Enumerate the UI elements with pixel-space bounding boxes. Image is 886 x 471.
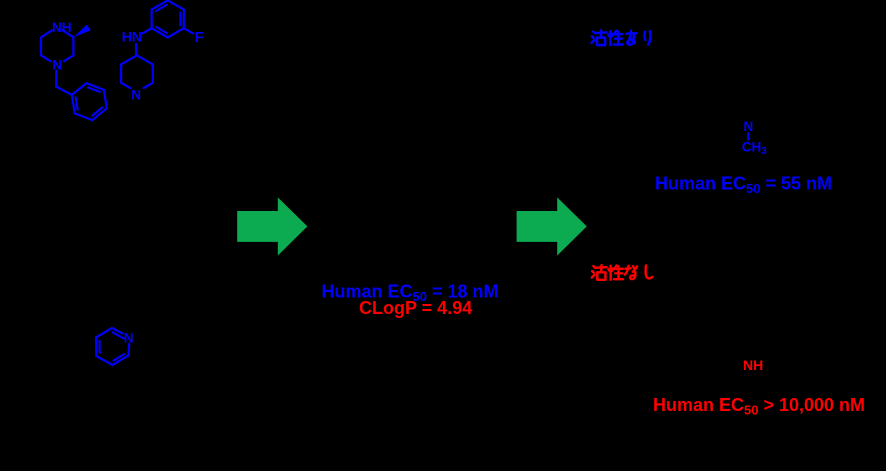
N-CH3 fragment bbox=[742, 119, 768, 157]
green arrow 1 bbox=[237, 197, 307, 255]
svg-text:NH: NH bbox=[743, 357, 763, 373]
fluorophenyl ring bbox=[152, 0, 184, 37]
svg-text:N: N bbox=[52, 57, 62, 72]
svg-text:CLogP = 4.94: CLogP = 4.94 bbox=[359, 298, 472, 318]
svg-text:HN: HN bbox=[122, 29, 142, 45]
svg-text:Human EC50 = 55 nM: Human EC50 = 55 nM bbox=[655, 174, 832, 197]
svg-text:N: N bbox=[124, 330, 134, 345]
benzyl phenyl ring bbox=[72, 83, 107, 120]
svg-text:Human EC50 > 10,000 nM: Human EC50 > 10,000 nM bbox=[653, 395, 865, 418]
piperidine ring bbox=[121, 55, 153, 88]
HN bond to ring bbox=[143, 28, 152, 33]
text 活性なし bbox=[592, 265, 653, 280]
green arrow 2 bbox=[517, 197, 587, 255]
F bond bbox=[184, 28, 194, 33]
methyl wedge bbox=[74, 25, 91, 38]
benzyl CH2 bonds bbox=[56, 71, 72, 95]
svg-text:F: F bbox=[195, 30, 204, 46]
HN-piperidine bond bbox=[135, 44, 137, 55]
svg-text:N: N bbox=[744, 119, 754, 134]
pyridine ring bbox=[96, 328, 129, 365]
svg-text:NH: NH bbox=[52, 20, 72, 35]
piperazine ring bbox=[41, 30, 73, 61]
svg-text:N: N bbox=[131, 87, 141, 102]
text 活性あり bbox=[591, 30, 650, 45]
